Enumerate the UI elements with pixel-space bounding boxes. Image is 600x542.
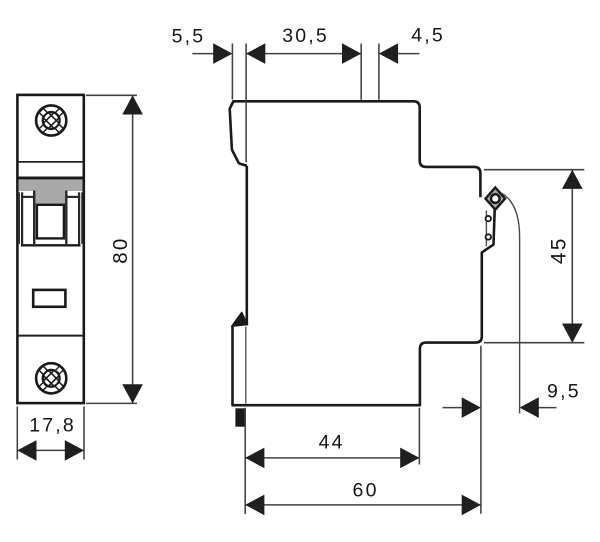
svg-text:80: 80 <box>109 236 132 263</box>
side view lower outline <box>233 209 495 405</box>
dimension 80 <box>86 95 143 403</box>
svg-text:60: 60 <box>353 479 379 501</box>
toggle gray band <box>17 177 83 192</box>
DIN clip pull tab <box>235 408 245 426</box>
bottom terminal screw <box>31 358 71 398</box>
dimension 30,5 <box>246 25 361 64</box>
svg-text:4,5: 4,5 <box>411 25 445 47</box>
dimension 9,5 <box>443 381 581 418</box>
toggle lever <box>37 205 64 239</box>
dimension 17,8 <box>17 407 84 461</box>
terminal screw diamond <box>486 188 506 210</box>
upper panel separation line <box>17 161 83 163</box>
side view left face <box>246 166 249 325</box>
dimension 4,5 <box>379 25 445 64</box>
svg-text:45: 45 <box>548 236 571 264</box>
label window <box>33 290 65 307</box>
svg-text:17,8: 17,8 <box>29 415 76 437</box>
DIN rail clip tooth <box>232 312 248 326</box>
side view upper outline <box>230 101 481 197</box>
svg-text:9,5: 9,5 <box>547 381 581 403</box>
dimension 60 <box>245 346 481 515</box>
toggle frame side rails <box>19 191 82 246</box>
dimension 5,5 <box>172 25 233 64</box>
toggle gray center recess <box>34 191 66 206</box>
top terminal screw <box>31 100 71 140</box>
extension line 5,5 right / 30,5 left <box>245 44 247 163</box>
clip inner edge line <box>245 327 247 404</box>
svg-text:44: 44 <box>319 431 345 453</box>
extension line 5,5 left <box>231 44 233 100</box>
toggle recess bottom line <box>21 244 81 246</box>
lower panel separation line <box>17 335 83 337</box>
terminal side edge <box>485 211 487 247</box>
busbar clearance curve <box>501 193 519 414</box>
terminal hole upper <box>486 216 491 221</box>
extension line 30,5 right / 4,5 left <box>360 44 362 100</box>
front view body outline <box>17 95 83 403</box>
svg-text:30,5: 30,5 <box>282 25 329 47</box>
dimension 44 <box>245 408 419 514</box>
dimension 45 <box>484 170 584 343</box>
terminal hole lower <box>486 234 491 239</box>
svg-text:5,5: 5,5 <box>172 25 206 47</box>
extension line 4,5 right <box>378 44 380 100</box>
